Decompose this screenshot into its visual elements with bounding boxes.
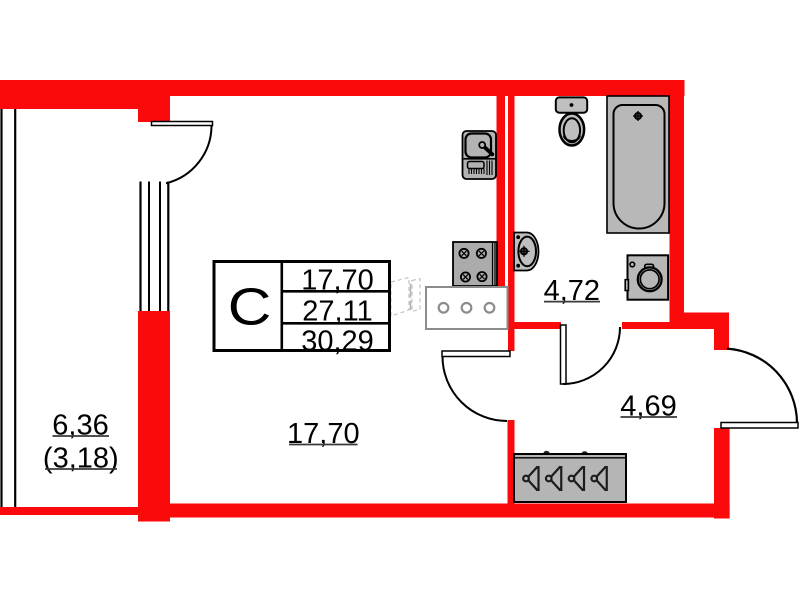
svg-text:27,11: 27,11 xyxy=(302,296,372,328)
svg-text:С: С xyxy=(228,277,272,335)
svg-text:17,70: 17,70 xyxy=(301,265,374,297)
svg-text:30,29: 30,29 xyxy=(301,326,374,358)
